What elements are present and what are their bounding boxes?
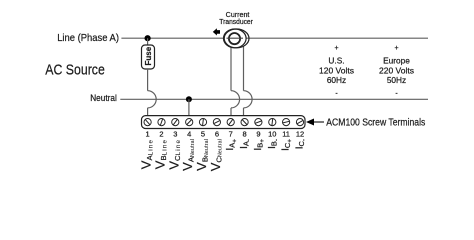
svg-text:220 Volts: 220 Volts [379,65,414,75]
svg-text:2: 2 [159,129,163,138]
terminal screws 1-12 [144,119,304,126]
wire fuse bottom down to hop [147,69,149,91]
screw 7 [227,119,234,126]
svg-text:6: 6 [215,129,219,138]
wire hop over Neutral at x=243.5 [244,91,253,108]
svg-text:1: 1 [146,129,150,138]
screw 10 [269,119,276,126]
wire hop bottom to terminal 1 [147,108,149,116]
svg-text:11: 11 [282,129,290,138]
screw 8 [241,119,248,126]
svg-text:8: 8 [243,129,247,138]
screw 6 [213,119,220,126]
svg-text:4: 4 [187,129,191,138]
svg-text:Fuse: Fuse [144,46,153,65]
wire CT right lead to terminal 8 [243,46,245,91]
svg-text:Europe: Europe [383,56,410,66]
junction dot on Neutral [186,96,192,102]
svg-text:AC Source: AC Source [45,61,105,78]
wire conductor through CT hole [227,37,244,39]
terminal pin numbers 1-12 [146,129,305,138]
svg-text:3: 3 [173,129,177,138]
svg-text:+: + [334,45,338,52]
svg-text:12: 12 [296,129,304,138]
fuse F1 body [142,45,155,69]
wire from Line dot to fuse top [147,38,149,45]
svg-text:7: 7 [229,129,233,138]
screw 2 [158,119,165,126]
wire hop bottom to terminal 8 [243,108,245,116]
svg-text:Neutral: Neutral [90,93,117,103]
wire hop over Neutral at x=147.6 [148,91,157,108]
current transducer T1 inner hole [229,33,240,44]
svg-text:120 Volts: 120 Volts [319,65,354,75]
junction dot on Line at fuse tap [145,35,151,41]
wire Neutral dot to terminal 4 [188,99,190,115]
svg-text:50Hz: 50Hz [387,75,406,85]
screw 1 [144,119,151,126]
svg-text:Line (Phase A): Line (Phase A) [57,32,119,44]
terminal labels (rotated) [139,139,308,172]
wire Neutral rail [120,98,428,100]
ACM100 pointer arrow [306,119,314,126]
wire CT left lead to terminal 7 [230,46,232,91]
screw 9 [255,119,262,126]
svg-text:+: + [394,45,398,52]
svg-text:ACM100 Screw Terminals: ACM100 Screw Terminals [326,118,425,129]
svg-text:10: 10 [268,129,276,138]
screw 11 [283,119,290,126]
svg-text:60Hz: 60Hz [327,75,346,85]
screw 3 [172,119,179,126]
current transducer T1 outer ring [224,29,247,48]
wire hop bottom to terminal 7 [230,108,232,116]
screw 12 [296,119,303,126]
wire hop over Neutral at x=231 [231,91,240,108]
svg-text:U.S.: U.S. [328,56,344,66]
current direction arrow [213,28,220,35]
svg-text:Transducer: Transducer [219,19,253,26]
terminal strip ACM100 body [142,116,306,129]
svg-text:Current: Current [226,12,250,19]
screw 4 [186,119,193,126]
screw 5 [199,119,206,126]
svg-text:5: 5 [201,129,205,138]
wire Line (Phase A) rail [121,37,428,39]
svg-text:9: 9 [256,129,260,138]
